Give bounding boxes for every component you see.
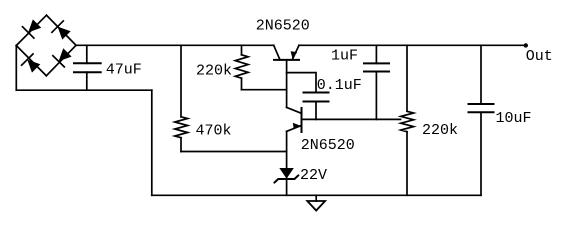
zener D5 22V (275, 168, 299, 183)
resistor R3 220k (right) (401, 45, 414, 195)
wire (470k bottom to emitter node) (181, 151, 287, 153)
wire (top rail left segment) (76, 44, 274, 46)
wire (bottom rail) (152, 194, 481, 196)
svg-text:2N6520: 2N6520 (256, 17, 310, 34)
svg-text:2N6520: 2N6520 (301, 137, 355, 154)
wire (top rail right segment) (299, 44, 526, 46)
wire (step drop to bottom rail) (151, 90, 153, 195)
capacitor C3 1uF (364, 45, 389, 119)
wire (Q1 base to 0.1uF top) (287, 73, 316, 93)
svg-text:470k: 470k (196, 122, 232, 139)
svg-text:220k: 220k (196, 62, 232, 79)
svg-text:220k: 220k (422, 122, 458, 139)
capacitor C2 0.1uF (304, 93, 329, 120)
capacitor C4 10uF (469, 45, 494, 195)
wire (bottom step horizontal) (16, 89, 152, 91)
svg-text:47uF: 47uF (106, 61, 142, 78)
diode D2 (bridge top-right) (47, 15, 77, 45)
wire (left corner drop) (15, 46, 17, 91)
capacitor C1 47uF (74, 45, 101, 90)
svg-text:0.1uF: 0.1uF (317, 77, 362, 94)
node Out (terminal dot) (524, 43, 528, 47)
resistor R2 220k (left) (235, 45, 248, 89)
diode D1 (bridge top-left) (16, 15, 46, 45)
ground (307, 195, 325, 210)
svg-text:Out: Out (526, 48, 553, 65)
svg-text:1uF: 1uF (331, 48, 358, 65)
svg-text:10uF: 10uF (496, 110, 532, 127)
wire (220k bottom to Q1 base) (242, 89, 287, 91)
transistor Q2 2N6520 (lower PNP) (287, 107, 401, 195)
diode D3 (bridge bottom-left) (16, 46, 46, 76)
transistor Q1 2N6520 (upper PNP pass) (274, 45, 299, 107)
svg-text:22V: 22V (300, 167, 327, 184)
diode D4 (bridge bottom-right) (46, 45, 76, 76)
resistor R1 470k (175, 45, 188, 151)
